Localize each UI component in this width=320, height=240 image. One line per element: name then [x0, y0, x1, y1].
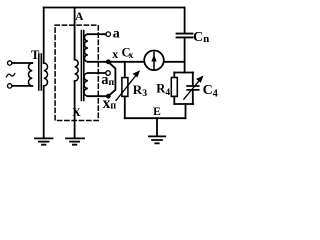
capacitor Cn [177, 34, 193, 38]
wire galvanometer right to Cn branch [164, 61, 185, 63]
node x junction dot [106, 59, 111, 64]
svg-text:x: x [112, 47, 118, 61]
resistor R4 [171, 78, 177, 97]
wire T secondary bottom to ground [43, 86, 45, 138]
wire main bottom rail [125, 117, 186, 119]
wire R3 bottom lead [124, 96, 126, 118]
wire top bus [44, 7, 185, 9]
wire lead to node x [88, 61, 107, 63]
svg-text:Cn: Cn [193, 30, 209, 45]
terminal a circle [106, 32, 111, 37]
svg-text:E: E [153, 106, 161, 118]
wire bus from node x to galvanometer [111, 61, 145, 63]
wire R4 top lead [173, 73, 175, 78]
wire jog connecting x to xp [110, 63, 116, 94]
wire lead to terminal xp [88, 95, 107, 97]
resistor R3 variable arrow [116, 75, 136, 100]
wire parallel combo bottom rail [174, 103, 193, 105]
wire left vertical from top bus to transformer T secondary [43, 8, 45, 64]
wire HV primary top lead (A) [74, 8, 76, 60]
resistor R3 [122, 78, 128, 97]
wire AC upper lead [12, 62, 32, 64]
capacitor C4 [187, 86, 198, 90]
HV secondary winding ap-xp [84, 73, 88, 96]
ground (HV primary X) [66, 138, 84, 144]
wire parallel combo top rail [174, 72, 193, 74]
wire R4 bottom lead [173, 96, 175, 104]
transformer T primary winding [28, 63, 32, 86]
ground (left, T) [35, 138, 53, 144]
svg-text:R4: R4 [156, 82, 170, 98]
wire lead to terminal ap [88, 72, 106, 74]
terminal circle upper (AC input) [8, 61, 12, 65]
wire R3 top lead [124, 62, 126, 78]
AC source tilde [6, 74, 15, 77]
HV transformer core [81, 31, 83, 101]
wire C4 top lead [192, 73, 194, 86]
terminal circle lower (AC input) [8, 84, 12, 88]
svg-text:X: X [72, 105, 81, 119]
HV secondary winding a-x [84, 34, 87, 62]
wire lead to terminal a [88, 33, 106, 35]
transformer T core [39, 54, 42, 90]
galvanometer (null indicator) [144, 51, 164, 71]
svg-text:a: a [113, 26, 120, 41]
wire C4 bottom lead [192, 91, 194, 104]
svg-text:xп: xп [103, 95, 117, 112]
svg-text:x: x [129, 51, 134, 61]
ground (E) [149, 136, 165, 143]
wire drop from combo to bottom rail [185, 104, 187, 118]
HV transformer primary winding A-X [75, 60, 79, 81]
svg-text:aп: aп [101, 72, 114, 88]
dashed enclosure (HV transformer) [55, 25, 98, 120]
wire ground tap E [156, 118, 158, 136]
node xp junction dot [106, 94, 111, 99]
wire Cn bottom to parallel branch [184, 38, 186, 73]
wire AC lower lead [12, 85, 32, 87]
wire HV primary bottom lead (X) to ground [74, 81, 76, 138]
svg-text:A: A [75, 11, 84, 23]
terminal ap circle [106, 71, 111, 76]
svg-text:R3: R3 [133, 82, 147, 99]
capacitor C4 variable arrow [184, 80, 200, 99]
transformer T secondary winding [44, 63, 48, 86]
wire Cn top lead [184, 8, 186, 34]
svg-text:C4: C4 [203, 83, 218, 100]
